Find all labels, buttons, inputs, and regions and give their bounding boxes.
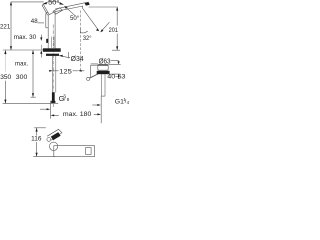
svg-text:8: 8 <box>67 97 70 102</box>
svg-text:350: 350 <box>0 74 11 81</box>
svg-text:32°: 32° <box>83 34 92 42</box>
svg-text:221: 221 <box>0 24 10 31</box>
svg-text:40-53: 40-53 <box>107 74 125 81</box>
svg-text:Ø63: Ø63 <box>99 57 111 66</box>
svg-text:50°: 50° <box>70 14 79 22</box>
svg-text:max. 180: max. 180 <box>63 111 92 118</box>
svg-text:201: 201 <box>109 27 119 34</box>
svg-text:50°: 50° <box>48 0 60 6</box>
svg-text:300: 300 <box>16 74 28 81</box>
svg-text:max.: max. <box>15 61 28 68</box>
svg-text:116: 116 <box>31 136 42 143</box>
svg-text:125: 125 <box>59 69 72 76</box>
svg-text:max. 30: max. 30 <box>14 34 37 41</box>
svg-text:Ø34: Ø34 <box>71 54 84 63</box>
svg-text:48: 48 <box>31 18 38 25</box>
svg-text:4: 4 <box>127 100 130 105</box>
